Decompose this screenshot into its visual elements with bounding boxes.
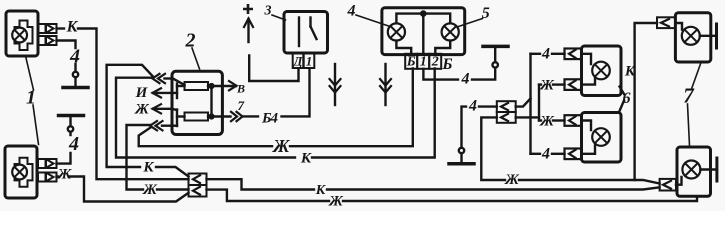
- terminal 7 output of relay 2, connector chevrons: [208, 115, 231, 117]
- wire 4 from bottom lamp up to ground: [57, 153, 71, 164]
- svg-text:4: 4: [541, 46, 550, 63]
- lamp 1 (front left turn signal, bottom) housing: [5, 146, 37, 198]
- connector at lamp 6 upper box, pin Ж: [565, 79, 582, 90]
- svg-text:1: 1: [26, 87, 36, 109]
- wire lamp 4 to terminal Б: [396, 41, 411, 54]
- svg-text:К: К: [300, 151, 312, 167]
- connector at lamp 6 lower box, pin Ж: [565, 115, 582, 126]
- svg-text:Д: Д: [293, 54, 304, 69]
- resistor (upper) in relay 2: [185, 82, 209, 90]
- leader of label 3: [272, 15, 286, 20]
- svg-text:Ж: Ж: [328, 194, 344, 210]
- lamp 6 upper bulb: [592, 62, 610, 80]
- terminal 1 of switch 3: [304, 54, 315, 69]
- switch blade: [309, 18, 311, 27]
- svg-text:3: 3: [264, 4, 272, 19]
- svg-text:Ж: Ж: [57, 167, 73, 183]
- svg-text:К: К: [142, 160, 154, 176]
- ground (right middle): [460, 153, 462, 164]
- ground (bottom left, bar on top): [69, 116, 71, 127]
- connector at lamp (pin a): [38, 159, 46, 168]
- leader lines of label 6: [620, 87, 625, 95]
- internal wiring lower box: [582, 121, 592, 131]
- wire Б4 from relay 2 to switch 3 terminal 1: [243, 115, 258, 117]
- svg-text:К: К: [315, 183, 327, 198]
- svg-text:И: И: [135, 85, 149, 101]
- svg-text:Б4: Б4: [261, 111, 279, 127]
- connector at lamp 7 (bottom rear): [660, 179, 676, 191]
- internal wiring upper box: [582, 54, 592, 64]
- svg-text:5: 5: [482, 5, 490, 22]
- connector at lamp 1 top (pin a): [38, 24, 46, 33]
- switch 3 box: [284, 12, 328, 54]
- terminal И arrow of relay 2: [153, 92, 177, 94]
- wire to lamp 5: [423, 14, 450, 24]
- leader of label 5: [457, 19, 483, 28]
- wire 4 from lamp 1 to ground: [57, 41, 76, 49]
- ground bullet (right middle): [459, 148, 464, 153]
- lamp 4 (left indicator lamp): [388, 23, 405, 40]
- wire К long riser to rear top lamp: [635, 23, 657, 180]
- svg-text:6: 6: [623, 90, 631, 107]
- node feed of lamp block: [421, 12, 425, 16]
- svg-text:Ж: Ж: [539, 114, 555, 130]
- svg-text:4: 4: [347, 3, 356, 20]
- leader of label 4: [356, 15, 390, 27]
- internal left links of relay 2: [173, 79, 185, 86]
- lamp 6 lower box: [582, 113, 622, 163]
- relay 2 (flasher) box: [172, 71, 222, 134]
- wire Ж distribution riser: [516, 116, 539, 118]
- wire Ж from bottom lamp along bottom to connector X1: [57, 175, 59, 177]
- connector X1 (lower left pair) pin 1: [189, 174, 207, 186]
- svg-text:Ж: Ж: [539, 78, 555, 94]
- internal bus of relay 2: [210, 86, 212, 117]
- connector X1 pin 2: [189, 185, 207, 197]
- resistor (lower) in relay 2: [185, 113, 209, 121]
- lamp 7 bottom bulb: [682, 161, 700, 179]
- wire К relay 2 upper-left to bus К: [116, 78, 295, 158]
- connector at lamp 1 top (pin b): [38, 36, 46, 45]
- wire 4 terminal 1 to ground: [423, 69, 458, 80]
- lamp 7 bottom ground pin: [700, 168, 717, 170]
- terminal Ж arrow of relay 2: [153, 109, 177, 110]
- lamp 1 (front left turn signal, top) housing: [6, 11, 38, 56]
- svg-text:7: 7: [237, 98, 244, 113]
- connector at lamp (pin b): [38, 173, 46, 182]
- lamp 7 (bottom rear) housing: [677, 147, 711, 196]
- leader of label 2: [192, 48, 200, 69]
- ground bullet (bottom left): [68, 126, 73, 131]
- ground (top left): [74, 77, 76, 87]
- svg-text:1: 1: [420, 55, 427, 70]
- svg-text:7: 7: [683, 84, 695, 108]
- svg-text:Б: Б: [406, 55, 416, 70]
- svg-text:4: 4: [541, 146, 550, 163]
- terminal Б of lamp block: [405, 54, 417, 69]
- svg-text:К: К: [66, 19, 79, 36]
- svg-text:4: 4: [461, 71, 470, 88]
- wire К from X1 to rear (lower bus): [207, 179, 315, 189]
- svg-text:К: К: [624, 64, 636, 80]
- wire Ж connector X2 to rear right lamp: [481, 117, 505, 180]
- lamp 6 lower bulb: [592, 128, 610, 146]
- switch contact (fixed): [298, 18, 300, 47]
- svg-text:Ж: Ж: [134, 102, 150, 118]
- lamp 5 (right indicator lamp): [442, 23, 459, 40]
- terminal Д of switch 3: [293, 54, 304, 69]
- svg-text:В: В: [236, 81, 245, 95]
- wire node to terminal 1: [422, 14, 424, 54]
- wire to lamp 4: [396, 14, 423, 24]
- connector at lamp 6 lower box, pin 4: [565, 149, 582, 160]
- lamp 7 top bulb: [682, 27, 700, 45]
- wire Ж relay 2 lower-left to connector X1: [127, 125, 151, 190]
- wire Ж from X1 to rear (lowest bus): [207, 190, 330, 201]
- wire 4 distribution riser: [516, 99, 531, 107]
- svg-text:Ж: Ж: [504, 172, 520, 188]
- svg-text:4: 4: [69, 46, 80, 68]
- connector at lamp 7 (top rear): [657, 17, 675, 28]
- lamp 6 upper box: [582, 46, 622, 96]
- wire lamp 5 to terminal 2: [435, 41, 450, 54]
- connector at lamp 6 upper box, pin 4: [565, 49, 582, 60]
- wire Ж relay 2 lower-left to bus Ж: [139, 128, 272, 147]
- terminal В output of relay 2 (arrow right): [208, 85, 236, 87]
- svg-text:Б: Б: [441, 56, 452, 73]
- wire К relay 2 upper-left to connector X1 (long loop): [107, 65, 153, 167]
- svg-text:4: 4: [68, 133, 79, 155]
- leader of label 1: [26, 58, 34, 90]
- dangling connector arrow (below switch 3): [334, 64, 336, 105]
- wire 4 connector X2 to ground: [479, 105, 497, 107]
- ground (near lamp block, bar on top): [494, 46, 496, 62]
- svg-text:4: 4: [468, 98, 477, 115]
- lamp 7 top ground pin: [700, 35, 717, 37]
- svg-text:Ж: Ж: [271, 136, 290, 156]
- lamp 7 (top rear) housing: [675, 13, 710, 62]
- leader of label 7: [692, 63, 702, 90]
- bulb (bottom left): [12, 165, 27, 180]
- terminal 2 of lamp block: [429, 54, 441, 69]
- lamp 1 holder cross: [15, 21, 33, 51]
- lamp block 4/5 box: [382, 8, 465, 55]
- svg-text:1: 1: [306, 54, 313, 69]
- connector X2 pin 2: [497, 112, 516, 123]
- wire К from lamp 1 down left side to connector X1: [57, 27, 65, 29]
- dangling connector arrow (below lamp block): [384, 64, 386, 105]
- ground bullet (top left): [73, 72, 78, 77]
- ground bullet (near lamp block): [493, 62, 498, 67]
- lamp 1 bulb: [12, 28, 27, 43]
- internal wire: [675, 23, 682, 30]
- svg-text:Ж: Ж: [142, 182, 158, 198]
- label +: [243, 4, 253, 14]
- terminal 1 of lamp block: [417, 54, 429, 69]
- bus К continues to lamp block terminal 2: [312, 69, 435, 158]
- connector ≪ at relay 2 upper left: [153, 74, 160, 83]
- wire + supply to terminal Д: [249, 56, 298, 82]
- connector X2 (middle right pair) pin 1: [497, 101, 516, 112]
- connector ≪ at relay 2 lower left: [150, 121, 157, 130]
- lamp holder cross (bottom): [15, 158, 33, 187]
- svg-text:2: 2: [431, 55, 439, 70]
- internal wire: [676, 177, 682, 185]
- svg-text:2: 2: [185, 30, 196, 52]
